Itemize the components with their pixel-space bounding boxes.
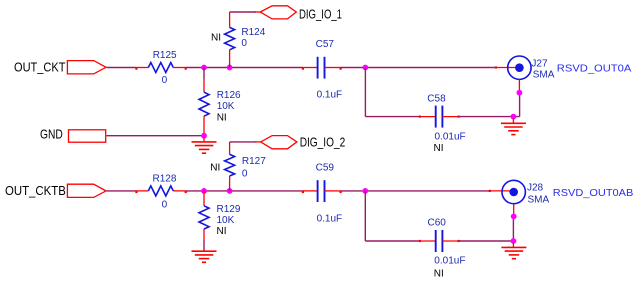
ground below R126 [192, 137, 217, 153]
junction node A [201, 65, 207, 71]
wire GND to R126 [107, 135, 205, 137]
port OUT_CKT [14, 60, 106, 75]
wire node C down to C58 rail [365, 68, 419, 117]
capacitor C60 [419, 217, 466, 279]
svg-text:10K: 10K [217, 215, 235, 226]
wire C58 to ground junction [459, 93, 520, 117]
connector J28 pin [489, 190, 513, 192]
svg-text:R129: R129 [217, 204, 241, 215]
svg-text:C59: C59 [316, 162, 335, 173]
wire OUT_CKT to R125 [107, 67, 137, 69]
svg-text:0: 0 [242, 168, 248, 179]
wire R128 to C59 [186, 190, 303, 192]
wire DIG_IO_1 to R124 [230, 11, 256, 13]
svg-text:10K: 10K [217, 101, 235, 112]
svg-text:NI: NI [434, 268, 444, 279]
svg-text:C58: C58 [427, 94, 446, 105]
resistor R124 [211, 12, 266, 68]
svg-text:OUT_CKTB: OUT_CKTB [5, 183, 66, 198]
junction node C [363, 65, 369, 71]
svg-text:R125: R125 [153, 50, 177, 61]
svg-text:0: 0 [162, 75, 168, 86]
resistor R126 [199, 68, 241, 136]
svg-text:R126: R126 [217, 90, 241, 101]
wire C57 to J27 [341, 67, 496, 69]
ground below R129 [192, 251, 217, 262]
resistor R127 [210, 142, 266, 191]
wire DIG_IO_2 to R127 [230, 141, 256, 143]
port DIG_IO_1 [255, 6, 342, 22]
junction GND node [201, 133, 207, 139]
resistor R125 [135, 50, 187, 86]
svg-text:0.01uF: 0.01uF [435, 131, 466, 142]
svg-text:NI: NI [217, 226, 227, 237]
junction below J28 [511, 214, 517, 220]
svg-text:0.1uF: 0.1uF [317, 213, 343, 224]
svg-text:RSVD_OUT0AB: RSVD_OUT0AB [553, 187, 634, 199]
junction node B2 [227, 188, 233, 194]
svg-text:NI: NI [217, 113, 227, 124]
svg-text:NI: NI [434, 143, 444, 154]
svg-text:0: 0 [162, 200, 168, 211]
wire C60 to ground junction [459, 218, 514, 241]
resistor R128 [135, 173, 187, 210]
svg-text:R127: R127 [242, 156, 266, 167]
svg-text:0.1uF: 0.1uF [317, 90, 343, 101]
wire OUT_CKTB to R128 [107, 190, 137, 192]
svg-text:R124: R124 [241, 27, 265, 38]
wire node C2 down to C60 rail [365, 191, 419, 241]
svg-text:DIG_IO_1: DIG_IO_1 [299, 6, 342, 21]
junction ground node top [511, 114, 517, 120]
junction node B [227, 65, 233, 71]
wire C59 to J28 [341, 190, 490, 192]
connector J27 pin [495, 66, 518, 68]
svg-text:C60: C60 [428, 217, 447, 228]
port DIG_IO_2 [255, 134, 345, 149]
port OUT_CKTB [5, 183, 106, 198]
junction node C2 [362, 188, 368, 194]
junction ground node bottom [511, 238, 517, 244]
connector J28 [502, 180, 550, 205]
J27 bottom pin [518, 80, 520, 91]
svg-text:R128: R128 [153, 173, 177, 184]
port GND [40, 127, 106, 143]
svg-text:GND: GND [40, 127, 63, 142]
wire R125 to C57 [186, 67, 303, 69]
svg-text:0.01uF: 0.01uF [434, 255, 465, 266]
capacitor C57 [302, 39, 342, 101]
J28 bottom pin [513, 204, 515, 214]
svg-text:OUT_CKT: OUT_CKT [14, 60, 66, 75]
resistor R129 [199, 191, 241, 251]
junction below J27 [517, 90, 523, 96]
svg-text:J28: J28 [527, 182, 544, 193]
svg-text:J27: J27 [531, 58, 548, 69]
svg-text:0: 0 [241, 38, 247, 49]
svg-text:RSVD_OUT0A: RSVD_OUT0A [557, 63, 632, 75]
junction node A2 [201, 188, 207, 194]
svg-text:NI: NI [211, 32, 221, 43]
capacitor C59 [302, 162, 342, 224]
ground below J28 [501, 243, 526, 259]
svg-text:SMA: SMA [533, 70, 555, 81]
ground below J27 [501, 118, 526, 135]
svg-text:C57: C57 [316, 39, 335, 50]
connector J27 [508, 56, 555, 81]
svg-text:DIG_IO_2: DIG_IO_2 [300, 134, 346, 149]
svg-text:SMA: SMA [528, 194, 550, 205]
capacitor C58 [419, 94, 466, 154]
svg-text:NI: NI [210, 162, 220, 173]
